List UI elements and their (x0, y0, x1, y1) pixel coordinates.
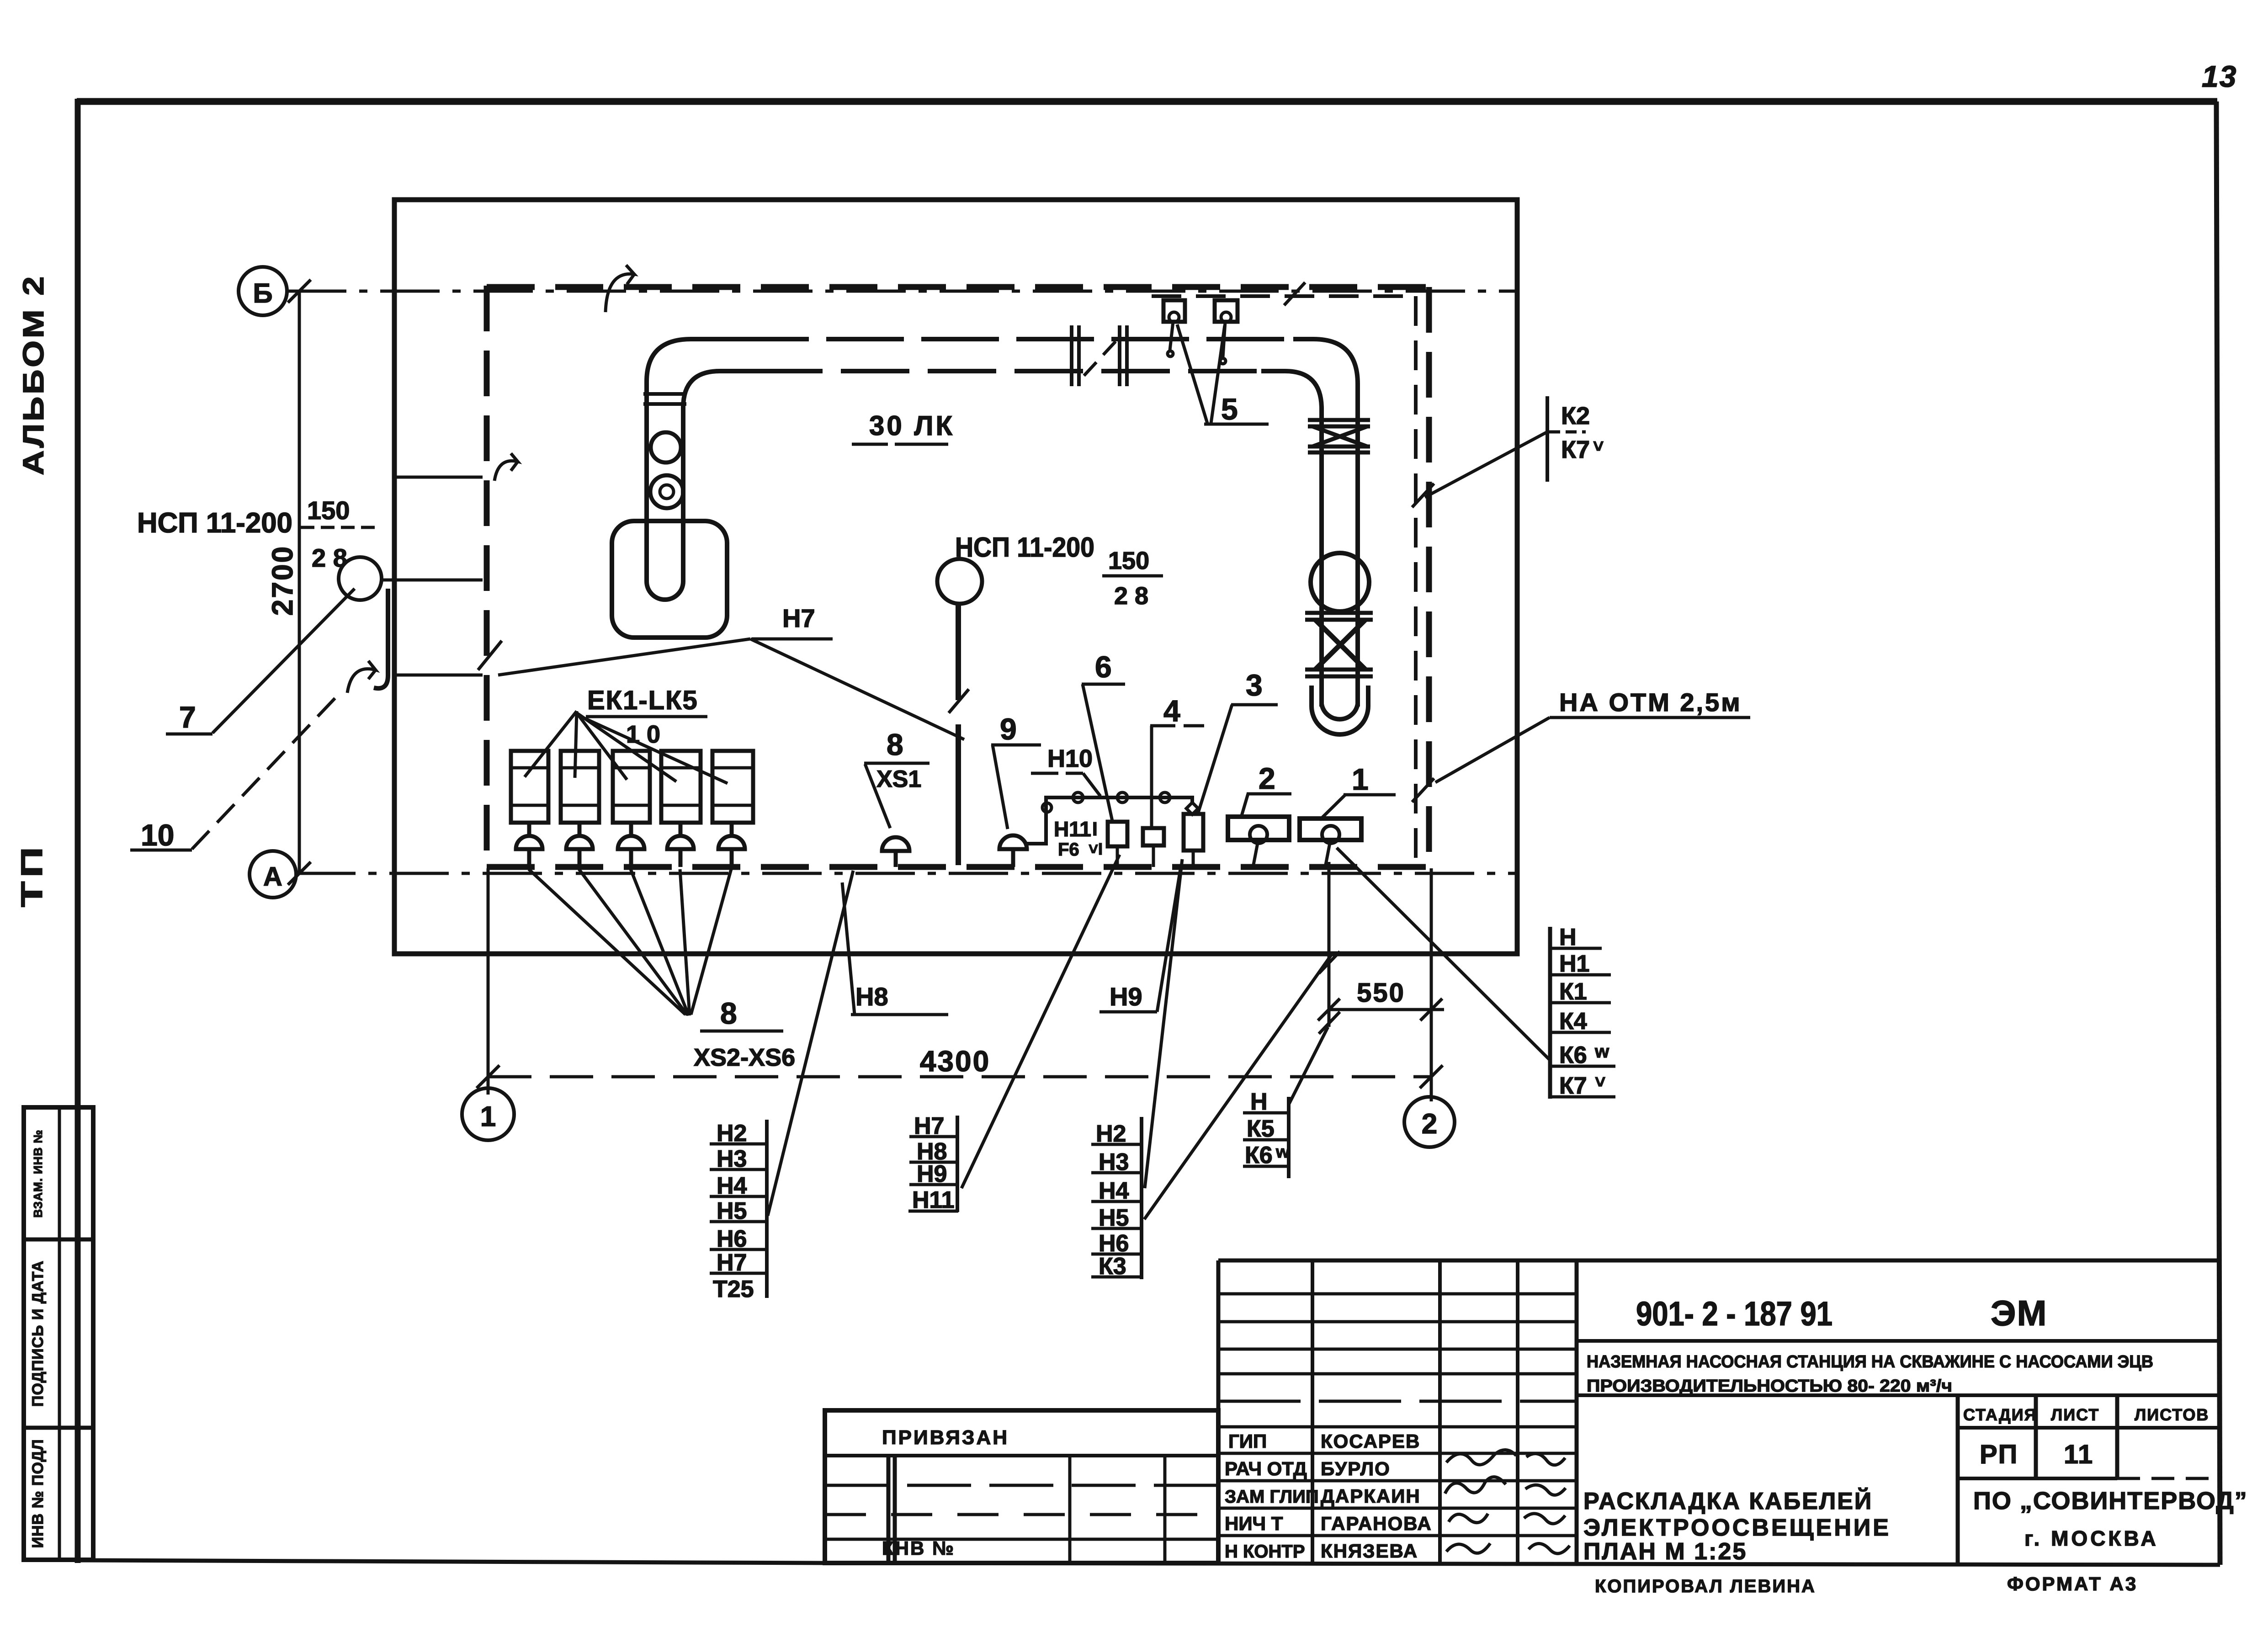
svg-text:Н: Н (1559, 924, 1577, 951)
svg-text:1: 1 (1352, 762, 1369, 796)
pipe U bend outer (1312, 686, 1368, 734)
right riser wall left (1319, 420, 1324, 707)
cable leader E vertical (1328, 862, 1331, 1027)
lamp dome 4 (667, 823, 694, 867)
signature scribble 2 (1445, 1477, 1566, 1495)
svg-text:w: w (1275, 1143, 1290, 1162)
svg-text:Н1: Н1 (1559, 951, 1589, 977)
cable J mark (374, 589, 388, 688)
flange top pair line 1 (1308, 418, 1370, 422)
svg-text:КОПИРОВАЛ ЛЕВИНА: КОПИРОВАЛ ЛЕВИНА (1595, 1576, 1816, 1596)
svg-text:13: 13 (2202, 59, 2237, 93)
svg-text:ТП: ТП (15, 843, 48, 907)
privyazan table outline (825, 1410, 1218, 1563)
signature grid r5 (1218, 1400, 1577, 1403)
svg-text:Н9: Н9 (1110, 982, 1142, 1011)
LEFTMARGIN (15, 274, 93, 1560)
svg-text:г. МОСКВА: г. МОСКВА (2024, 1526, 2159, 1550)
lamp dome 5 (718, 823, 745, 867)
svg-text:ФОРМАТ А3: ФОРМАТ А3 (2007, 1573, 2138, 1595)
svg-text:ЗАМ ГЛИП: ЗАМ ГЛИП (1225, 1487, 1319, 1507)
svg-text:˅: ˅ (1595, 1072, 1605, 1092)
pipe U bend inner (1322, 704, 1358, 719)
svg-text:К1: К1 (1559, 978, 1587, 1005)
starter box EK5 (712, 751, 753, 823)
svg-text:Б: Б (253, 278, 272, 308)
XS fan line 3 (631, 869, 689, 1015)
signature grid v4 (1575, 1260, 1579, 1563)
label H9 underline (1099, 1010, 1157, 1014)
dim 550 tick left (1318, 999, 1340, 1021)
label 8 XS2 bar (700, 1030, 783, 1033)
svg-text:ПО „СОВИНТЕРВОД”: ПО „СОВИНТЕРВОД” (1973, 1487, 2248, 1515)
svg-text:150: 150 (307, 496, 350, 525)
svg-text:2 8: 2 8 (312, 543, 347, 572)
lamp dome 2 (566, 823, 593, 867)
sheet border right (2216, 101, 2220, 1565)
label H10 leader (1083, 773, 1100, 796)
svg-text:11: 11 (2064, 1440, 2093, 1469)
dim 4300 tick left (477, 1065, 499, 1088)
svg-text:КНВ №: КНВ № (882, 1537, 955, 1559)
wall break tick 5 (1412, 778, 1434, 802)
label 2 leader (1241, 794, 1248, 817)
signature scribble 1 (1446, 1450, 1565, 1465)
svg-text:7: 7 (179, 700, 196, 734)
starter box EK3 (613, 751, 650, 823)
pipe riser left inner (681, 404, 685, 579)
signature grid r4 (1218, 1372, 1577, 1376)
flange pair A tick 2 (1077, 325, 1081, 386)
svg-text:Н7: Н7 (782, 604, 815, 633)
svg-text:˅I: ˅I (1089, 840, 1103, 858)
label EK1-LK5 bar (586, 715, 707, 718)
svg-text:Н11: Н11 (912, 1187, 955, 1213)
stamp table row line 1 (24, 1238, 93, 1242)
lamp dome XS1 (882, 837, 909, 867)
dim 550 tick right (1420, 999, 1442, 1021)
junction circle 1 (1073, 792, 1083, 803)
svg-text:2: 2 (1422, 1108, 1437, 1140)
svg-text:ЛИСТОВ: ЛИСТОВ (2135, 1405, 2209, 1424)
svg-text:К5: К5 (1247, 1116, 1275, 1142)
svg-text:˅: ˅ (1593, 436, 1604, 457)
pipe top run outer wall dash overlay (731, 337, 1298, 341)
pipe riser fitting circle 2 inner (660, 485, 674, 499)
signature scribble 4 (1446, 1543, 1570, 1553)
EK fan line 1 (525, 711, 577, 777)
label 5 leader a (1177, 324, 1207, 423)
wire run to switches (1027, 797, 1192, 844)
XS fan line 1 (529, 869, 685, 1015)
svg-text:ЕК1-LК5: ЕК1-LК5 (587, 686, 698, 715)
stack3 bar (1140, 1117, 1143, 1279)
svg-text:Н КОНТР: Н КОНТР (1225, 1542, 1305, 1562)
signature grid r9 (1218, 1507, 1577, 1510)
signature grid r10 (1218, 1534, 1577, 1537)
junction circle 2 (1117, 792, 1127, 803)
cable leader A (961, 855, 1120, 1188)
signature grid r3 (1218, 1348, 1577, 1351)
svg-text:Н: Н (1250, 1089, 1268, 1115)
label 9 underline (991, 744, 1041, 747)
svg-text:НСП 11-200: НСП 11-200 (137, 507, 292, 539)
svg-text:НА ОТМ 2,5м: НА ОТМ 2,5м (1559, 688, 1742, 717)
tag K2 K7 leader (1425, 432, 1547, 497)
signature grid r2 (1218, 1320, 1577, 1324)
svg-text:1: 1 (480, 1101, 496, 1132)
svg-text:К6: К6 (1559, 1042, 1587, 1069)
label 30 LK underline (852, 443, 948, 446)
label H9 leader (1157, 869, 1180, 1012)
starter box EK1 (511, 751, 548, 823)
svg-text:К4: К4 (1559, 1008, 1587, 1035)
svg-text:4300: 4300 (920, 1045, 990, 1078)
room wall bottom (487, 864, 1429, 870)
dim line 2700 vertical (298, 291, 301, 873)
svg-text:РАСКЛАДКА КАБЕЛЕЙ: РАСКЛАДКА КАБЕЛЕЙ (1583, 1488, 1873, 1515)
sheet border top (77, 98, 2217, 105)
cable leader E tick b (1319, 1012, 1340, 1034)
stage header line (1958, 1426, 2220, 1430)
EQUIP (511, 300, 1361, 867)
cable drop from NSP lamp (956, 604, 961, 865)
svg-text:ПЛАН М 1:25: ПЛАН М 1:25 (1583, 1538, 1747, 1565)
label NA OTM leader (1435, 718, 1550, 782)
privyazan row b (825, 1513, 1218, 1516)
label 8 XS1 bar (864, 762, 930, 765)
EK fan line 5 (577, 715, 728, 783)
stamp table divider column (58, 1107, 61, 1560)
svg-text:НСП 11-200: НСП 11-200 (955, 532, 1094, 563)
sheet border bottom (80, 1560, 2220, 1565)
lamp dome 1 (516, 823, 542, 867)
device box 6 (1108, 822, 1127, 846)
tag K2 K7 bar (1546, 396, 1549, 482)
svg-text:ЭМ: ЭМ (1991, 1293, 2047, 1333)
svg-text:СТАДИЯ: СТАДИЯ (1963, 1405, 2037, 1424)
label 10 underline (130, 849, 192, 852)
svg-text:ЭЛЕКТРООСВЕЩЕНИЕ: ЭЛЕКТРООСВЕЩЕНИЕ (1583, 1515, 1891, 1541)
flange low line 2 (1305, 675, 1373, 679)
svg-text:5: 5 (1221, 392, 1238, 426)
signature grid outline (1218, 1260, 2220, 1563)
label 1 underline (1344, 793, 1396, 797)
svg-text:901- 2 - 187 91: 901- 2 - 187 91 (1636, 1295, 1832, 1333)
cable leader G (768, 871, 853, 1216)
label 6 leader (1083, 684, 1112, 821)
valve X body (1315, 620, 1365, 670)
flange mid line 2 (1305, 618, 1373, 622)
wall break tick 1 (478, 641, 502, 670)
svg-text:Н10: Н10 (1047, 745, 1093, 772)
gate valve bowtie (1312, 426, 1367, 447)
svg-text:АЛЬБОМ 2: АЛЬБОМ 2 (17, 274, 50, 475)
building outline rectangle (394, 200, 1517, 954)
svg-text:К2: К2 (1561, 402, 1590, 430)
signature grid v3 (1516, 1260, 1519, 1563)
lamp 7 circle (339, 557, 382, 600)
svg-text:БУРЛО: БУРЛО (1321, 1458, 1391, 1479)
signature grid r8 (1218, 1479, 1577, 1483)
label H10 underline (1031, 772, 1083, 775)
socket box 2 (1228, 817, 1289, 840)
ceiling lamp 5a stem (1168, 322, 1173, 356)
sheet border left (75, 99, 81, 1563)
svg-text:4: 4 (1163, 694, 1180, 728)
project number cell line (1577, 1339, 2220, 1343)
svg-text:6: 6 (1095, 650, 1112, 684)
svg-text:НАЗЕМНАЯ НАСОСНАЯ СТАНЦИЯ НА С: НАЗЕМНАЯ НАСОСНАЯ СТАНЦИЯ НА СКВАЖИНЕ С … (1587, 1352, 2153, 1372)
privyazan vertical 3 (1163, 1456, 1167, 1563)
signature grid r1 (1218, 1292, 1577, 1296)
label H7 leader right (750, 639, 964, 739)
cable route top (1152, 294, 1416, 298)
svg-text:ПРИВЯЗАН: ПРИВЯЗАН (882, 1426, 1009, 1449)
STACKS (710, 924, 1615, 1302)
svg-text:3: 3 (1246, 668, 1263, 702)
EK fan line 3 (577, 713, 627, 780)
ball joint sphere (1311, 553, 1369, 611)
cable hook arrow top left (606, 265, 634, 312)
dim 4300 tick right (1420, 1065, 1443, 1088)
axis A line (296, 872, 1517, 875)
TITLEBLOCK (825, 1260, 2248, 1596)
dim 2700 tick top (288, 280, 311, 303)
pipe riser joint line a (643, 392, 686, 396)
privyazan row c (825, 1538, 1218, 1541)
svg-text:РП: РП (1980, 1440, 2018, 1469)
ceiling lamp 5b stem (1220, 322, 1226, 364)
dim 2700 tick bottom (288, 862, 311, 885)
svg-text:F6: F6 (1058, 840, 1079, 860)
switch box 3 (1184, 814, 1203, 851)
label 1 leader (1320, 795, 1345, 820)
label 5 underline (1204, 423, 1269, 426)
svg-text:РАЧ ОТД: РАЧ ОТД (1225, 1458, 1307, 1479)
EK fan line 4 (577, 713, 676, 781)
cable hook arrow 10 target (347, 661, 376, 693)
cable hook arrow left wall (494, 453, 518, 481)
svg-text:А: А (263, 862, 282, 892)
privyazan row a (825, 1484, 1218, 1487)
junction diamond (1186, 803, 1198, 814)
ceiling lamp square 5b (1215, 300, 1238, 322)
pipe riser fitting circle 1 (651, 432, 681, 463)
svg-text:150: 150 (1108, 547, 1149, 574)
stack5 bar (1548, 927, 1552, 1099)
lamp 7 feed line (382, 579, 483, 582)
svg-text:2700: 2700 (266, 545, 299, 616)
PLAN (339, 200, 1517, 954)
svg-text:2 8: 2 8 (1114, 582, 1148, 610)
label 2 underline (1247, 792, 1291, 796)
cable leader B (1145, 859, 1182, 1188)
svg-text:КНЯЗЕВА: КНЯЗЕВА (1321, 1540, 1418, 1562)
svg-text:XS2-XS6: XS2-XS6 (694, 1044, 795, 1071)
stack4 bar (1287, 1097, 1291, 1178)
wall break tick 2 (1284, 282, 1305, 305)
dim line 4300 (488, 1075, 1431, 1079)
axis 1 line (487, 868, 490, 1095)
privyazan header line (825, 1454, 1218, 1457)
axis 2 line (1430, 868, 1433, 1101)
label H7 underline (752, 638, 833, 641)
label NA OTM underline (1550, 716, 1750, 719)
XS fan line 4 (680, 869, 690, 1015)
signature grid r7 (1218, 1452, 1577, 1455)
signature grid r6 (1218, 1425, 1577, 1429)
stage col v3 (2115, 1395, 2119, 1478)
intake box rounded (612, 521, 727, 638)
svg-text:I: I (1092, 818, 1098, 840)
label 4 underline (1150, 724, 1204, 728)
svg-text:30 ЛК: 30 ЛК (869, 410, 955, 441)
svg-text:КОСАРЕВ: КОСАРЕВ (1321, 1430, 1420, 1452)
label H8 leader (842, 882, 855, 1015)
stage row line dashed (2117, 1477, 2220, 1480)
svg-text:ДАРКАИН: ДАРКАИН (1321, 1485, 1421, 1507)
gate valve bottom flange line 2 (1308, 451, 1370, 455)
label 7 underline (166, 733, 212, 736)
axis 1 circle (462, 1088, 514, 1140)
stack1 bar (765, 1120, 769, 1298)
pipe top run inner wall dash overlay (754, 369, 1266, 373)
svg-text:Т25: Т25 (713, 1276, 754, 1302)
flange mid line 1 (1305, 611, 1373, 615)
label 5 leader b (1211, 325, 1225, 423)
svg-text:ПРОИЗВОДИТЕЛЬНОСТЬЮ 80- 220 м: ПРОИЗВОДИТЕЛЬНОСТЬЮ 80- 220 м³/ч (1587, 1377, 1952, 1396)
starter box EK2 (561, 751, 599, 823)
lamp dome 9 (999, 835, 1027, 867)
svg-text:Н11: Н11 (1054, 817, 1091, 841)
junction circle 3 (1160, 792, 1170, 803)
label 3 leader (1198, 705, 1232, 813)
cable leader C (1144, 954, 1332, 1219)
svg-text:ЛИСТ: ЛИСТ (2051, 1405, 2099, 1424)
label NSP left fraction bar (301, 526, 379, 529)
svg-text:10: 10 (141, 818, 174, 852)
stack2 bar (956, 1116, 959, 1212)
cable route right (1414, 296, 1418, 864)
signature grid v2 (1438, 1260, 1442, 1563)
svg-text:2: 2 (1259, 761, 1275, 795)
svg-text:ПОДПИСЬ И ДАТА: ПОДПИСЬ И ДАТА (29, 1260, 47, 1407)
stage col v1 (1956, 1395, 1960, 1563)
svg-text:ГАРАНОВА: ГАРАНОВА (1321, 1513, 1432, 1534)
label 7 leader (212, 589, 355, 733)
signature grid v1 (1311, 1260, 1314, 1563)
pipe top run outer wall (647, 339, 1358, 420)
dim line 550 (1329, 1008, 1444, 1011)
room wall right (1426, 287, 1432, 868)
flange pair B tick 2 (1125, 325, 1129, 386)
label 9 leader (993, 745, 1008, 829)
label H8 underline (851, 1013, 948, 1016)
label H7 leader left (498, 639, 750, 675)
svg-text:w: w (1594, 1042, 1609, 1062)
svg-text:8: 8 (887, 728, 903, 761)
label 10 leader (192, 691, 342, 849)
PIPES (612, 325, 1373, 734)
svg-text:9: 9 (1000, 712, 1017, 746)
svg-text:НИЧ Т: НИЧ Т (1225, 1513, 1283, 1534)
label 3 underline (1231, 703, 1278, 707)
label NSP right fraction bar (1102, 574, 1163, 578)
stamp table (24, 1107, 93, 1560)
gate valve bottom flange line 1 (1308, 445, 1370, 449)
device box 4 (1143, 828, 1164, 845)
starter box EK4 (661, 751, 701, 823)
svg-text:XS1: XS1 (876, 766, 921, 792)
pipe riser left outer (644, 385, 649, 579)
lamp dome 3 (618, 823, 644, 867)
XS fan line 2 (579, 869, 687, 1015)
svg-text:К7: К7 (1561, 436, 1590, 463)
svg-text:ГИП: ГИП (1228, 1430, 1267, 1452)
axis A circle (250, 851, 296, 898)
stair rung 3 (394, 674, 483, 677)
wall break tick 3 (949, 689, 969, 713)
stair rung 2 (394, 476, 483, 479)
XS fan line 5 (691, 869, 731, 1015)
tag K2 K7 dash (1549, 431, 1586, 434)
lamp NSP circle right (937, 559, 982, 604)
cable leader E tick a (1319, 952, 1340, 973)
pipe riser joint line b (643, 402, 686, 406)
signature scribble 3 (1449, 1514, 1565, 1524)
svg-text:Н8: Н8 (855, 982, 888, 1011)
svg-text:К6: К6 (1245, 1142, 1273, 1169)
room wall left (484, 286, 490, 868)
right riser wall right (1355, 420, 1360, 707)
stage col v2 (2034, 1395, 2038, 1478)
label 8 XS1 leader (865, 764, 890, 828)
svg-text:8: 8 (720, 996, 737, 1030)
flange pair B tick 1 (1118, 325, 1121, 386)
privyazan vertical 1 (888, 1456, 895, 1563)
axis 2 circle (1404, 1097, 1455, 1147)
pipe riser fitting circle 2 (650, 475, 683, 508)
wall break tick 4 (1412, 484, 1434, 507)
flange pair A tick 1 (1070, 325, 1073, 386)
cable leader E diagonal (1289, 1027, 1328, 1104)
svg-text:550: 550 (1357, 978, 1405, 1008)
stage row line (1958, 1477, 2117, 1480)
label 6 underline (1082, 683, 1125, 686)
socket box 1 (1300, 819, 1361, 840)
ceiling lamp square 5a (1163, 300, 1185, 322)
stamp table row line 2 (24, 1426, 93, 1430)
flange low line 1 (1305, 668, 1373, 672)
axis B circle (239, 267, 287, 315)
pipe top run inner wall (683, 371, 1322, 420)
svg-text:ВЗАМ. ИНВ №: ВЗАМ. ИНВ № (31, 1129, 45, 1217)
EK fan line 2 (575, 711, 577, 778)
pipe break slash (1084, 339, 1118, 376)
privyazan vertical 2 (1068, 1456, 1072, 1563)
label 4 leader (1150, 726, 1153, 826)
cable leader D (1337, 848, 1549, 1059)
description cell line (1577, 1393, 2220, 1397)
AXES (239, 267, 1517, 1147)
room wall top (487, 284, 1429, 290)
svg-text:ИНВ № ПОДЛ: ИНВ № ПОДЛ (29, 1439, 47, 1548)
pipe riser U bottom outer (647, 571, 683, 600)
axis B line (287, 290, 1517, 293)
svg-text:К7: К7 (1559, 1073, 1587, 1099)
flange top pair line 2 (1308, 425, 1370, 429)
